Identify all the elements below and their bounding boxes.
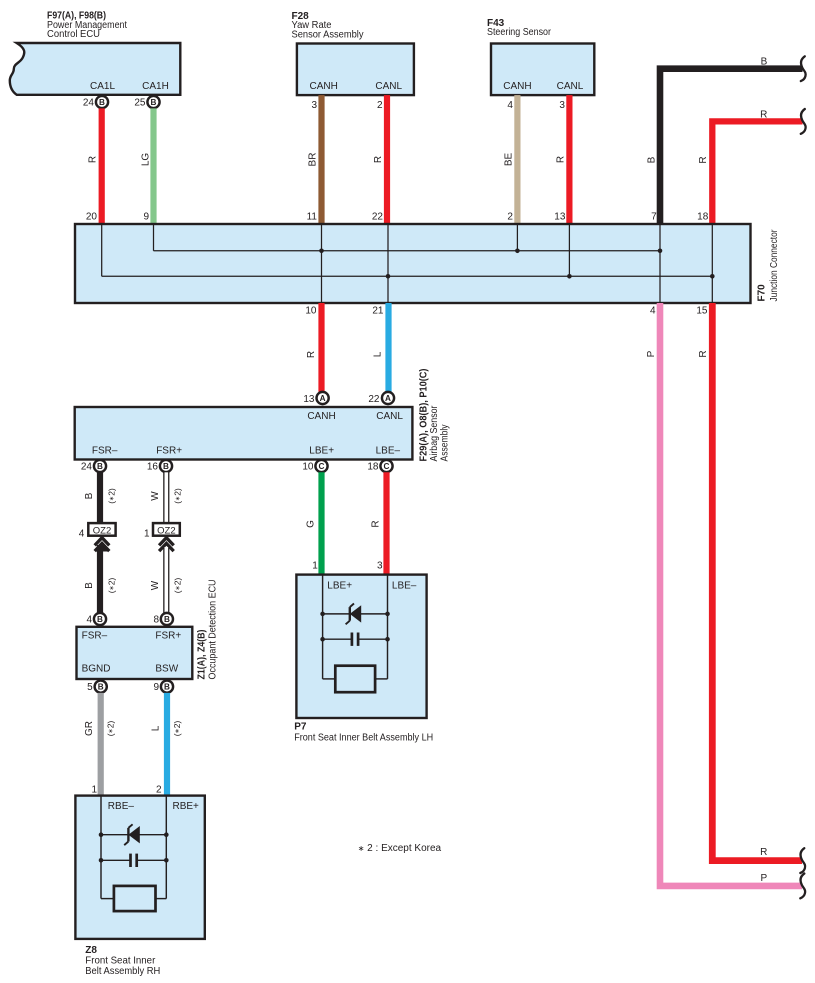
svg-text:R: R — [306, 351, 317, 358]
squib / buckle switch block (Z8) — [114, 886, 156, 911]
wire R from CA1L pin 24 to junction pin 20 — [86, 108, 102, 224]
yaw rate sensor assembly box F28 — [297, 44, 414, 96]
svg-text:(∗2): (∗2) — [173, 578, 183, 594]
svg-text:A: A — [385, 394, 391, 403]
svg-text:P: P — [760, 873, 767, 884]
svg-text:LBE–: LBE– — [392, 581, 417, 592]
svg-text:R: R — [760, 847, 767, 858]
svg-text:LBE–: LBE– — [376, 445, 401, 456]
wire R from airbag LBE- to belt assembly LH pin 3 — [370, 472, 386, 574]
svg-text:OZ2: OZ2 — [157, 525, 175, 536]
junction internal bus: pin 22 to pin 21 vertical — [387, 225, 389, 302]
svg-text:4: 4 — [79, 528, 85, 539]
svg-text:Z8: Z8 — [85, 945, 97, 956]
torn-end mark of wire B — [801, 56, 806, 81]
svg-text:18: 18 — [367, 462, 379, 473]
svg-text:RBE+: RBE+ — [173, 801, 200, 812]
squib / buckle switch block (P7) — [335, 666, 375, 693]
node RBE- diode (Z8) — [99, 832, 104, 837]
svg-text:BSW: BSW — [155, 664, 178, 675]
svg-text:CANL: CANL — [376, 411, 403, 422]
airbag sensor assembly side label — [419, 369, 451, 462]
svg-text:10: 10 — [302, 462, 314, 473]
svg-text:Assembly: Assembly — [440, 425, 451, 462]
svg-text:Sensor Assembly: Sensor Assembly — [292, 29, 364, 40]
svg-text:R: R — [370, 520, 381, 527]
svg-text:W: W — [150, 580, 161, 590]
svg-text:13: 13 — [303, 394, 315, 405]
svg-text:CANH: CANH — [503, 81, 531, 92]
svg-text:P: P — [646, 350, 657, 357]
svg-text:24: 24 — [83, 97, 95, 108]
svg-text:5: 5 — [87, 682, 93, 693]
torn-end mark of wire R lower — [800, 848, 805, 873]
node LBE+ capacitor (P7) — [320, 637, 325, 642]
svg-text:FSR+: FSR+ — [156, 445, 182, 456]
svg-text:2: 2 — [507, 212, 513, 223]
svg-text:BE: BE — [503, 153, 514, 167]
svg-text:Junction Connector: Junction Connector — [769, 229, 780, 302]
svg-text:2: 2 — [156, 784, 162, 795]
svg-text:Airbag Sensor: Airbag Sensor — [429, 405, 440, 462]
svg-text:CANL: CANL — [557, 81, 584, 92]
svg-text:P7: P7 — [294, 722, 307, 733]
junction node CANL-22 — [386, 274, 391, 279]
svg-text:(∗2): (∗2) — [107, 488, 117, 504]
power management control ECU box (torn left edge) — [10, 43, 181, 95]
wire L from BSW to belt assembly RH pin 2 — [151, 693, 183, 796]
torn-end mark of wire R — [801, 109, 806, 134]
wire BE from F43 CANH to junction pin 2 — [503, 95, 517, 224]
svg-text:B: B — [164, 683, 170, 692]
svg-text:W: W — [150, 491, 161, 501]
svg-text:∗ 2 : Except Korea: ∗ 2 : Except Korea — [358, 843, 442, 854]
node LBE- diode (P7) — [385, 612, 390, 617]
internal wire stubs to squib (P7) — [323, 678, 388, 680]
svg-text:R: R — [88, 156, 99, 163]
pin 13 connector A of airbag sensor — [303, 394, 315, 405]
wire R from junction pin 10 to airbag sensor pin 13 — [305, 303, 321, 392]
svg-text:B: B — [151, 98, 157, 107]
splice chevrons below OZ2 (white wire) — [159, 538, 174, 546]
junction internal bus: pin 7 to pin 4 vertical — [659, 225, 661, 302]
svg-text:C: C — [384, 462, 390, 471]
svg-text:9: 9 — [153, 682, 159, 693]
junction node CANL-13 — [567, 274, 572, 279]
junction connector F70 box — [75, 224, 751, 303]
svg-text:C: C — [319, 462, 325, 471]
pin 5 connector B of occupant detection ECU — [87, 682, 93, 693]
svg-text:LG: LG — [141, 153, 152, 167]
svg-text:B: B — [84, 582, 95, 589]
svg-text:FSR–: FSR– — [92, 445, 118, 456]
internal wire RBE- rail (Z8) — [100, 796, 102, 899]
svg-text:BR: BR — [308, 153, 319, 167]
svg-text:GR: GR — [84, 721, 95, 736]
svg-text:G: G — [305, 520, 316, 528]
svg-text:F29(A), O8(B), P10(C): F29(A), O8(B), P10(C) — [419, 369, 430, 462]
svg-text:B: B — [163, 462, 169, 471]
wire B from CAN trunk (off-page right) to junction pin 7 — [647, 56, 803, 224]
svg-text:10: 10 — [305, 306, 317, 317]
wire R from junction pin 15 to off-page right — [696, 303, 802, 861]
airbag sensor assembly box F29/O8/P10 — [75, 407, 413, 460]
svg-text:R: R — [373, 156, 384, 163]
svg-text:16: 16 — [147, 462, 159, 473]
junction internal bus: CANH rail — [154, 250, 661, 252]
wire BR from F28 CANH to junction pin 11 — [307, 95, 322, 224]
wire G from airbag LBE+ to belt assembly LH pin 1 — [305, 472, 321, 574]
node RBE+ capacitor (Z8) — [164, 858, 169, 863]
svg-text:CA1H: CA1H — [142, 81, 169, 92]
svg-text:8: 8 — [153, 614, 159, 625]
svg-text:1: 1 — [312, 561, 318, 572]
wire W from airbag FSR+ to connector OZ2 pin 1 — [150, 472, 183, 523]
splice chevrons below OZ2 (black wire) — [95, 538, 110, 546]
wire R from CAN trunk (off-page right) to junction pin 18 — [697, 110, 802, 225]
svg-text:(∗2): (∗2) — [107, 578, 117, 594]
svg-text:A: A — [320, 394, 326, 403]
svg-text:B: B — [98, 683, 104, 692]
svg-text:R: R — [698, 156, 709, 163]
pin 8 connector B of occupant detection ECU — [153, 614, 159, 625]
svg-text:Control ECU: Control ECU — [47, 29, 100, 40]
svg-text:F70: F70 — [757, 284, 768, 302]
svg-text:4: 4 — [650, 306, 656, 317]
Z8 footer label — [85, 945, 160, 977]
svg-text:CA1L: CA1L — [90, 81, 115, 92]
svg-text:3: 3 — [311, 100, 317, 111]
connector OZ2 (black wire) — [79, 523, 116, 539]
pin 24 connector B — [83, 97, 95, 108]
svg-text:CANH: CANH — [307, 411, 335, 422]
svg-text:4: 4 — [507, 100, 513, 111]
svg-text:B: B — [761, 56, 768, 67]
svg-text:Z1(A), Z4(B): Z1(A), Z4(B) — [197, 630, 208, 680]
svg-text:18: 18 — [697, 212, 709, 223]
svg-text:13: 13 — [554, 212, 566, 223]
junction node CANH-7 — [658, 249, 663, 254]
internal wire diode row (P7) — [323, 613, 388, 615]
connector OZ2 (white wire) — [144, 523, 180, 539]
capacitor (P7) — [352, 633, 358, 646]
junction internal bus: pin 2 stub — [516, 225, 518, 251]
internal wire RBE+ rail (Z8) — [165, 796, 167, 899]
capacitor (Z8) — [131, 854, 137, 867]
internal wire capacitor row (Z8) — [101, 859, 166, 861]
pin 9 connector B of occupant detection ECU — [153, 682, 159, 693]
svg-text:(∗2): (∗2) — [172, 721, 182, 737]
internal wire LBE+ rail (P7) — [322, 575, 324, 679]
svg-text:(∗2): (∗2) — [173, 488, 183, 504]
svg-text:24: 24 — [81, 462, 93, 473]
pin 25 connector B — [134, 97, 146, 108]
svg-text:Front Seat Inner: Front Seat Inner — [85, 955, 156, 966]
svg-text:2: 2 — [377, 100, 383, 111]
wire W from OZ2 to occupant detection ECU pin 8 — [150, 547, 183, 613]
svg-text:B: B — [647, 156, 658, 163]
svg-text:4: 4 — [86, 614, 92, 625]
junction internal bus: pin 20 stub — [101, 225, 103, 276]
node RBE+ diode (Z8) — [164, 832, 169, 837]
svg-text:R: R — [555, 156, 566, 163]
wire GR from BGND to belt assembly RH pin 1 — [84, 693, 116, 796]
svg-text:20: 20 — [86, 212, 98, 223]
svg-text:3: 3 — [377, 561, 383, 572]
ECU F97/F98 header label — [47, 11, 127, 41]
svg-text:CANH: CANH — [310, 81, 338, 92]
wire P from junction pin 4 to off-page right — [646, 303, 802, 886]
wire LG from CA1H pin 25 to junction pin 9 — [141, 108, 154, 224]
svg-text:FSR–: FSR– — [82, 630, 108, 641]
svg-text:22: 22 — [368, 394, 380, 405]
svg-text:FSR+: FSR+ — [155, 630, 181, 641]
svg-text:B: B — [97, 462, 103, 471]
junction connector F70 side label — [757, 229, 781, 302]
F28 yaw rate sensor header label — [292, 11, 364, 40]
svg-text:R: R — [760, 110, 767, 121]
svg-text:11: 11 — [307, 212, 318, 223]
internal wire LBE- rail (P7) — [387, 575, 389, 679]
svg-text:3: 3 — [559, 100, 565, 111]
pin 4 connector B of occupant detection ECU — [86, 614, 92, 625]
junction internal bus: pin 9 stub — [153, 225, 155, 251]
internal wire stubs to squib (Z8) — [101, 898, 166, 900]
svg-text:BGND: BGND — [82, 664, 111, 675]
svg-text:7: 7 — [651, 212, 657, 223]
F43 steering sensor header label — [487, 18, 552, 38]
occupant detection ECU side label — [197, 580, 219, 680]
svg-text:L: L — [373, 351, 384, 357]
svg-text:1: 1 — [91, 784, 97, 795]
occupant detection ECU box Z1/Z4 — [77, 627, 193, 679]
svg-text:22: 22 — [372, 212, 384, 223]
front seat inner belt assembly LH box P7 — [296, 575, 426, 718]
svg-text:R: R — [698, 350, 709, 357]
svg-text:Belt Assembly RH: Belt Assembly RH — [85, 966, 160, 977]
wire B from airbag FSR- to connector OZ2 pin 4 — [84, 472, 117, 523]
zener diode (P7) — [346, 604, 362, 625]
svg-text:1: 1 — [144, 528, 150, 539]
wire L from junction pin 21 to airbag sensor pin 22 — [372, 303, 388, 392]
front seat inner belt assembly RH box Z8 — [75, 796, 204, 939]
node RBE- capacitor (Z8) — [99, 858, 104, 863]
svg-text:LBE+: LBE+ — [327, 581, 352, 592]
svg-text:L: L — [151, 725, 162, 731]
svg-text:21: 21 — [372, 306, 384, 317]
wire R from F28 CANL to junction pin 22 — [372, 95, 387, 224]
svg-text:15: 15 — [696, 306, 708, 317]
svg-text:B: B — [164, 615, 170, 624]
pin 18 connector C of airbag sensor — [367, 462, 379, 473]
junction internal bus: pin 18 to pin 15 vertical — [711, 225, 713, 302]
svg-text:LBE+: LBE+ — [309, 445, 334, 456]
node LBE+ diode (P7) — [320, 612, 325, 617]
svg-text:B: B — [84, 492, 95, 499]
torn-end mark of wire P — [800, 874, 805, 899]
node LBE- capacitor (P7) — [385, 637, 390, 642]
svg-text:B: B — [97, 615, 103, 624]
junction internal bus: pin 13 stub — [568, 225, 570, 276]
pin 10 connector C of airbag sensor — [302, 462, 314, 473]
pin 24 connector B of airbag sensor — [81, 462, 93, 473]
svg-text:Steering Sensor: Steering Sensor — [487, 27, 552, 38]
junction node CANL-18 — [710, 274, 715, 279]
internal wire capacitor row (P7) — [323, 638, 388, 640]
junction node CANH-11 — [319, 249, 324, 254]
internal wire diode row (Z8) — [101, 834, 166, 836]
junction internal bus: pin 11 to pin 10 vertical — [321, 225, 323, 302]
svg-text:CANL: CANL — [375, 81, 402, 92]
junction internal bus: CANL rail — [102, 275, 713, 277]
P7 footer label — [294, 722, 433, 744]
svg-text:Front Seat Inner Belt Assembly: Front Seat Inner Belt Assembly LH — [294, 733, 433, 744]
junction node CANH-2 — [515, 249, 520, 254]
svg-text:9: 9 — [143, 212, 149, 223]
svg-text:B: B — [99, 98, 105, 107]
svg-text:Occupant Detection ECU: Occupant Detection ECU — [208, 580, 219, 680]
svg-text:OZ2: OZ2 — [93, 525, 111, 536]
wire B from OZ2 to occupant detection ECU pin 4 — [84, 545, 117, 613]
pin 16 connector B of airbag sensor — [147, 462, 159, 473]
zener diode (Z8) — [124, 824, 140, 845]
wire R from F43 CANL to junction pin 13 — [554, 95, 569, 224]
svg-text:RBE–: RBE– — [108, 801, 135, 812]
pin 22 connector A of airbag sensor — [368, 394, 380, 405]
svg-text:25: 25 — [134, 97, 146, 108]
svg-text:(∗2): (∗2) — [106, 721, 116, 737]
steering sensor box F43 — [491, 44, 594, 96]
